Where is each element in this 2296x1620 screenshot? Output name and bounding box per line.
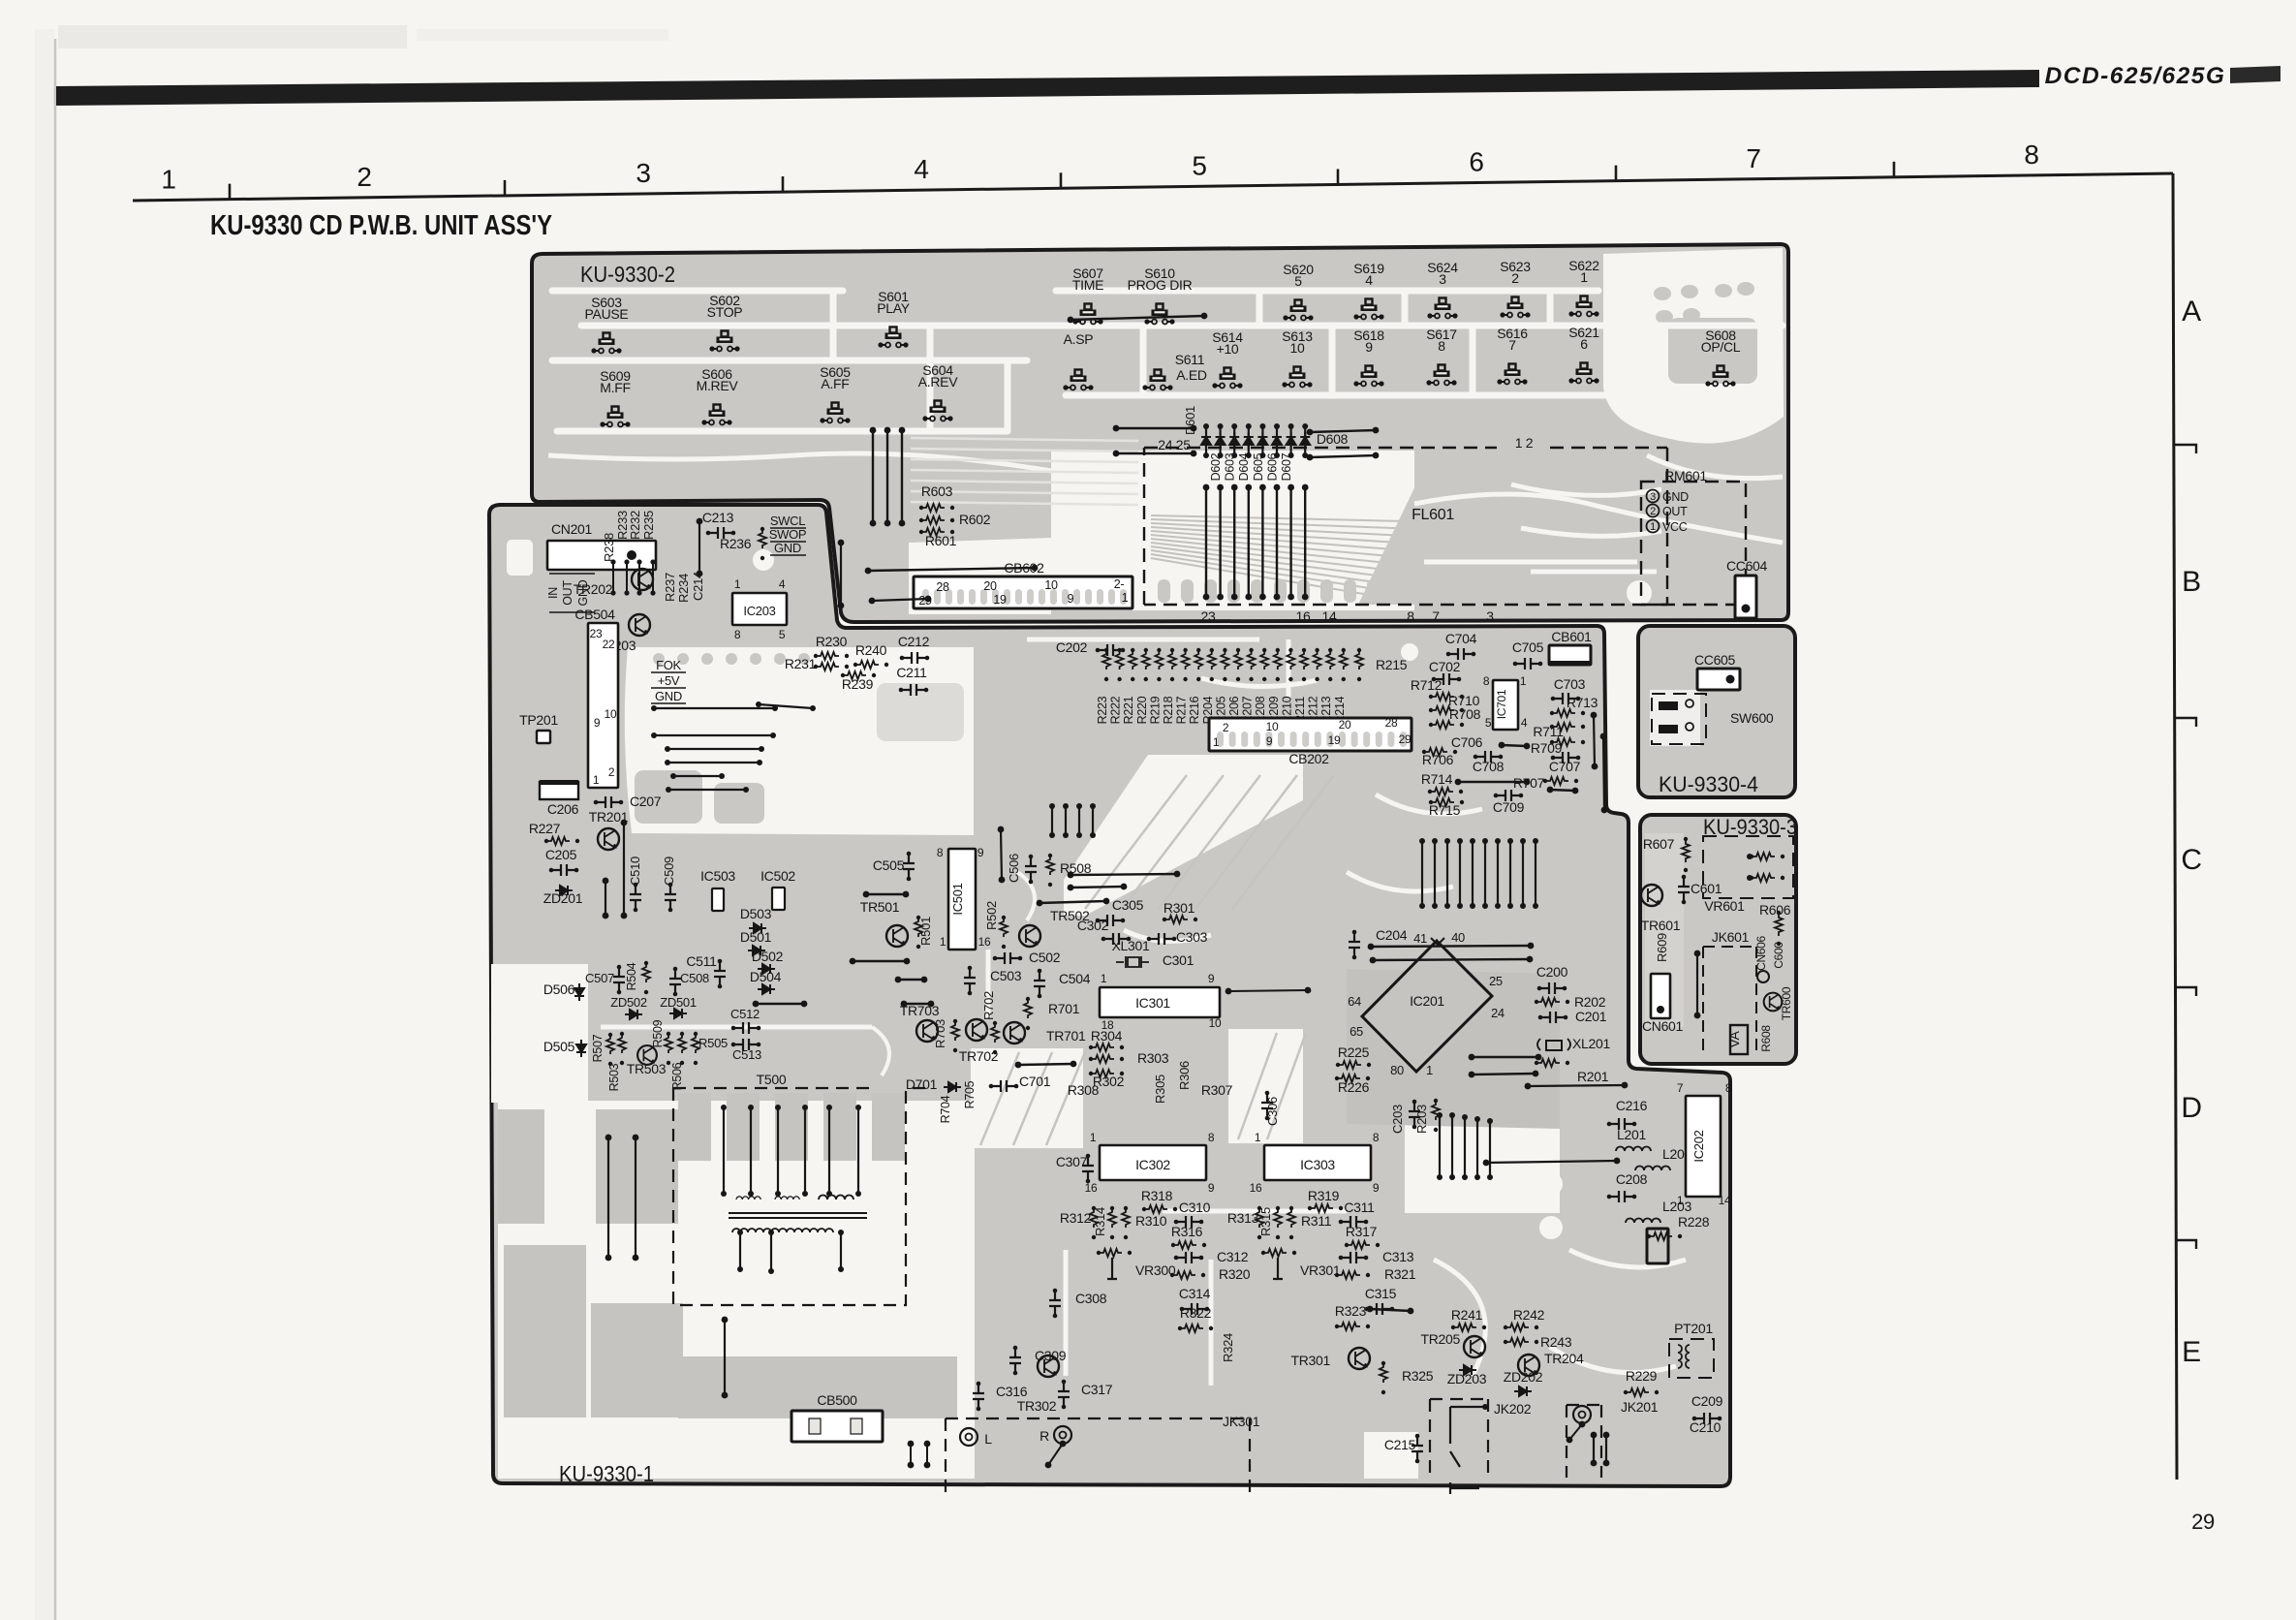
svg-text:7: 7 bbox=[1432, 608, 1440, 624]
svg-text:R310: R310 bbox=[1135, 1213, 1167, 1229]
svg-text:C507: C507 bbox=[585, 971, 614, 985]
svg-text:TIME: TIME bbox=[1072, 277, 1103, 293]
svg-text:R202: R202 bbox=[1574, 994, 1606, 1010]
svg-text:5: 5 bbox=[1485, 716, 1492, 730]
svg-text:41: 41 bbox=[1413, 931, 1427, 946]
svg-text:A.ED: A.ED bbox=[1176, 367, 1207, 383]
svg-text:R706: R706 bbox=[1422, 752, 1454, 767]
svg-text:B: B bbox=[2182, 566, 2201, 598]
svg-text:TR503: TR503 bbox=[627, 1061, 667, 1076]
svg-text:R317: R317 bbox=[1346, 1224, 1378, 1239]
svg-text:VCC: VCC bbox=[1662, 520, 1688, 534]
svg-text:JK201: JK201 bbox=[1621, 1399, 1659, 1415]
svg-text:28: 28 bbox=[1385, 716, 1398, 730]
svg-text:8: 8 bbox=[1483, 674, 1490, 688]
svg-text:10: 10 bbox=[605, 707, 617, 721]
svg-text:R307: R307 bbox=[1201, 1082, 1233, 1098]
svg-text:20: 20 bbox=[1339, 718, 1351, 732]
svg-text:R226: R226 bbox=[1338, 1079, 1370, 1095]
svg-text:C509: C509 bbox=[662, 857, 676, 886]
svg-text:R308: R308 bbox=[1068, 1082, 1100, 1098]
svg-text:65: 65 bbox=[1350, 1024, 1363, 1039]
svg-text:R703: R703 bbox=[933, 1019, 947, 1048]
svg-text:2: 2 bbox=[357, 162, 371, 192]
svg-text:C314: C314 bbox=[1179, 1286, 1211, 1301]
svg-text:PAUSE: PAUSE bbox=[585, 306, 629, 322]
svg-text:S611: S611 bbox=[1175, 352, 1205, 367]
svg-text:5: 5 bbox=[1192, 150, 1206, 180]
svg-text:10: 10 bbox=[1290, 340, 1305, 356]
svg-text:IC701: IC701 bbox=[1495, 689, 1508, 719]
svg-text:R320: R320 bbox=[1219, 1266, 1251, 1282]
svg-text:JK202: JK202 bbox=[1494, 1401, 1532, 1417]
svg-text:GND: GND bbox=[1662, 490, 1689, 504]
svg-text:28: 28 bbox=[936, 580, 949, 594]
svg-text:R713: R713 bbox=[1567, 695, 1598, 710]
svg-text:R501: R501 bbox=[918, 917, 933, 946]
svg-text:1: 1 bbox=[1677, 1194, 1684, 1207]
svg-text:8: 8 bbox=[734, 628, 741, 641]
svg-text:C709: C709 bbox=[1493, 799, 1525, 815]
svg-text:C216: C216 bbox=[1616, 1098, 1648, 1113]
svg-text:R323: R323 bbox=[1335, 1303, 1367, 1319]
svg-text:KU-9330 CD P.W.B. UNIT ASS'Y: KU-9330 CD P.W.B. UNIT ASS'Y bbox=[210, 210, 552, 241]
svg-text:R504: R504 bbox=[625, 962, 638, 990]
svg-text:6: 6 bbox=[1469, 147, 1483, 177]
svg-text:R231: R231 bbox=[785, 656, 817, 671]
svg-text:8: 8 bbox=[1725, 1081, 1732, 1095]
svg-text:R311: R311 bbox=[1301, 1213, 1332, 1229]
svg-text:2: 2 bbox=[608, 765, 615, 779]
svg-text:R221: R221 bbox=[1122, 696, 1135, 724]
svg-text:23: 23 bbox=[590, 627, 603, 640]
svg-text:C511: C511 bbox=[686, 953, 717, 969]
svg-text:GND: GND bbox=[655, 689, 682, 703]
svg-text:22: 22 bbox=[603, 638, 615, 651]
svg-text:R313: R313 bbox=[1227, 1210, 1259, 1226]
svg-text:R508: R508 bbox=[1060, 860, 1092, 876]
svg-text:1: 1 bbox=[1255, 1131, 1261, 1144]
svg-text:IC502: IC502 bbox=[760, 868, 795, 884]
svg-text:RM601: RM601 bbox=[1664, 468, 1707, 483]
svg-text:R314: R314 bbox=[1093, 1207, 1107, 1236]
svg-text:CC604: CC604 bbox=[1726, 558, 1768, 574]
svg-text:C708: C708 bbox=[1473, 759, 1505, 774]
svg-text:R603: R603 bbox=[921, 483, 953, 499]
svg-text:C504: C504 bbox=[1059, 971, 1091, 986]
svg-text:64: 64 bbox=[1348, 994, 1361, 1009]
svg-text:TR204: TR204 bbox=[1544, 1351, 1584, 1366]
svg-text:R240: R240 bbox=[855, 642, 887, 658]
svg-text:1: 1 bbox=[734, 577, 741, 591]
svg-text:R241: R241 bbox=[1451, 1307, 1483, 1323]
svg-text:R238: R238 bbox=[602, 533, 616, 562]
svg-text:R322: R322 bbox=[1180, 1305, 1212, 1321]
svg-text:KU-9330-2: KU-9330-2 bbox=[580, 262, 675, 287]
svg-text:R705: R705 bbox=[963, 1080, 977, 1108]
svg-text:R232: R232 bbox=[628, 511, 642, 540]
svg-text:R304: R304 bbox=[1091, 1028, 1123, 1044]
svg-text:1: 1 bbox=[940, 935, 946, 949]
svg-text:D608: D608 bbox=[1317, 431, 1349, 447]
svg-text:24: 24 bbox=[1491, 1006, 1505, 1020]
svg-text:R601: R601 bbox=[925, 533, 957, 548]
svg-text:14: 14 bbox=[1719, 1194, 1731, 1207]
svg-text:R229: R229 bbox=[1626, 1368, 1658, 1384]
svg-text:+10: +10 bbox=[1217, 341, 1239, 357]
svg-text:R715: R715 bbox=[1429, 802, 1461, 818]
svg-text:TR701: TR701 bbox=[1046, 1028, 1086, 1044]
svg-text:R301: R301 bbox=[1164, 900, 1195, 916]
svg-text:3: 3 bbox=[1439, 271, 1446, 287]
svg-text:1: 1 bbox=[1580, 269, 1588, 285]
svg-text:A: A bbox=[2182, 296, 2201, 327]
svg-text:80: 80 bbox=[1390, 1063, 1404, 1077]
svg-text:10: 10 bbox=[1209, 1016, 1222, 1030]
svg-text:L201: L201 bbox=[1617, 1127, 1646, 1142]
svg-text:R702: R702 bbox=[981, 991, 996, 1020]
svg-text:R243: R243 bbox=[1540, 1334, 1572, 1350]
svg-text:C213: C213 bbox=[702, 510, 734, 525]
svg-text:9: 9 bbox=[1208, 972, 1215, 985]
svg-text:JK301: JK301 bbox=[1223, 1414, 1260, 1429]
svg-text:R203: R203 bbox=[1414, 1105, 1429, 1134]
svg-text:19: 19 bbox=[993, 593, 1007, 607]
svg-text:R218: R218 bbox=[1162, 696, 1175, 724]
svg-text:R325: R325 bbox=[1402, 1368, 1434, 1384]
svg-text:R701: R701 bbox=[1048, 1001, 1080, 1016]
svg-text:PT201: PT201 bbox=[1674, 1321, 1713, 1336]
svg-text:DCD-625/625G: DCD-625/625G bbox=[2045, 63, 2226, 89]
svg-text:C303: C303 bbox=[1176, 929, 1208, 945]
svg-text:R316: R316 bbox=[1171, 1224, 1203, 1239]
svg-text:CN201: CN201 bbox=[551, 521, 593, 537]
svg-text:9: 9 bbox=[1068, 592, 1074, 606]
svg-text:SWOP: SWOP bbox=[769, 527, 807, 542]
svg-text:R201: R201 bbox=[1577, 1069, 1609, 1084]
svg-text:VA: VA bbox=[1726, 1031, 1742, 1048]
svg-text:CB202: CB202 bbox=[1288, 751, 1329, 766]
svg-text:R607: R607 bbox=[1643, 836, 1675, 852]
svg-text:C200: C200 bbox=[1536, 964, 1568, 980]
svg-text:+5V: +5V bbox=[658, 673, 680, 688]
svg-text:C210: C210 bbox=[1690, 1419, 1722, 1435]
svg-text:8: 8 bbox=[937, 846, 944, 859]
svg-text:D701: D701 bbox=[906, 1076, 938, 1092]
svg-text:TR600: TR600 bbox=[1780, 986, 1793, 1020]
svg-text:D505: D505 bbox=[543, 1039, 575, 1054]
svg-text:SW600: SW600 bbox=[1730, 710, 1774, 726]
svg-text:1: 1 bbox=[1520, 674, 1527, 688]
svg-text:R324: R324 bbox=[1221, 1333, 1235, 1362]
svg-text:R315: R315 bbox=[1258, 1207, 1273, 1236]
svg-text:R609: R609 bbox=[1655, 933, 1669, 962]
svg-text:R602: R602 bbox=[959, 512, 991, 527]
svg-text:R235: R235 bbox=[641, 511, 656, 540]
svg-text:1: 1 bbox=[1426, 1063, 1433, 1077]
svg-text:3: 3 bbox=[1650, 491, 1656, 503]
svg-text:2: 2 bbox=[1650, 506, 1656, 517]
svg-text:C315: C315 bbox=[1365, 1286, 1397, 1301]
svg-text:VR601: VR601 bbox=[1704, 898, 1745, 914]
svg-text:PROG DIR: PROG DIR bbox=[1128, 277, 1193, 293]
svg-text:CB500: CB500 bbox=[817, 1392, 857, 1408]
svg-text:R319: R319 bbox=[1308, 1188, 1340, 1203]
svg-text:R222: R222 bbox=[1109, 696, 1123, 724]
svg-text:IC503: IC503 bbox=[700, 868, 735, 884]
svg-text:C316: C316 bbox=[996, 1384, 1028, 1399]
svg-text:R: R bbox=[1039, 1428, 1049, 1444]
svg-text:E: E bbox=[2182, 1336, 2201, 1368]
svg-text:16: 16 bbox=[1085, 1181, 1098, 1195]
svg-text:C312: C312 bbox=[1217, 1249, 1249, 1264]
svg-text:ZD502: ZD502 bbox=[610, 995, 647, 1010]
svg-text:R712: R712 bbox=[1411, 677, 1443, 693]
svg-text:C202: C202 bbox=[1056, 639, 1088, 655]
svg-text:4: 4 bbox=[914, 154, 928, 184]
svg-text:D506: D506 bbox=[543, 981, 575, 997]
svg-text:XL201: XL201 bbox=[1572, 1036, 1610, 1051]
svg-text:TR702: TR702 bbox=[959, 1048, 999, 1064]
svg-text:C707: C707 bbox=[1549, 759, 1581, 774]
svg-text:R312: R312 bbox=[1060, 1210, 1092, 1226]
svg-text:C307: C307 bbox=[1056, 1154, 1088, 1169]
svg-text:10: 10 bbox=[1044, 578, 1058, 592]
svg-text:R239: R239 bbox=[842, 676, 874, 692]
svg-text:L: L bbox=[984, 1431, 992, 1447]
svg-text:R707: R707 bbox=[1513, 775, 1545, 791]
svg-text:XL301: XL301 bbox=[1112, 938, 1150, 953]
svg-text:40: 40 bbox=[1451, 930, 1465, 945]
svg-text:29: 29 bbox=[1399, 732, 1412, 746]
svg-text:1: 1 bbox=[1650, 521, 1656, 533]
svg-text:D607: D607 bbox=[1280, 452, 1293, 481]
svg-text:TR301: TR301 bbox=[1290, 1353, 1330, 1368]
svg-text:R216: R216 bbox=[1188, 696, 1201, 724]
svg-text:CN601: CN601 bbox=[1642, 1018, 1684, 1034]
svg-text:R303: R303 bbox=[1137, 1050, 1169, 1066]
svg-text:R227: R227 bbox=[529, 821, 561, 836]
svg-text:TR501: TR501 bbox=[860, 899, 900, 915]
svg-text:25: 25 bbox=[1489, 974, 1503, 988]
svg-text:5: 5 bbox=[779, 628, 786, 641]
svg-text:R220: R220 bbox=[1135, 696, 1149, 724]
svg-text:10: 10 bbox=[1266, 720, 1279, 733]
svg-text:CB602: CB602 bbox=[1004, 560, 1044, 576]
svg-text:R505: R505 bbox=[698, 1036, 728, 1050]
svg-text:FL601: FL601 bbox=[1412, 507, 1454, 523]
svg-text:R237: R237 bbox=[663, 573, 677, 602]
svg-text:CC605: CC605 bbox=[1694, 652, 1736, 668]
svg-text:CB504: CB504 bbox=[574, 607, 615, 622]
svg-text:C207: C207 bbox=[630, 794, 662, 809]
svg-text:R225: R225 bbox=[1338, 1044, 1370, 1060]
svg-text:D: D bbox=[2181, 1092, 2201, 1124]
svg-text:C305: C305 bbox=[1112, 897, 1144, 913]
svg-text:R608: R608 bbox=[1759, 1025, 1773, 1052]
svg-text:KU-9330-4: KU-9330-4 bbox=[1659, 772, 1758, 796]
svg-text:D604: D604 bbox=[1237, 452, 1251, 481]
svg-text:T500: T500 bbox=[757, 1072, 787, 1087]
svg-text:9: 9 bbox=[1208, 1181, 1215, 1195]
svg-text:C203: C203 bbox=[1390, 1105, 1405, 1134]
svg-text:R228: R228 bbox=[1678, 1214, 1710, 1230]
svg-text:C510: C510 bbox=[628, 857, 642, 886]
svg-text:6: 6 bbox=[1580, 336, 1588, 352]
svg-text:KU-9330-1: KU-9330-1 bbox=[559, 1461, 654, 1486]
svg-text:OUT: OUT bbox=[1662, 505, 1688, 518]
svg-text:C205: C205 bbox=[545, 847, 577, 862]
svg-text:3: 3 bbox=[1486, 608, 1494, 624]
svg-text:1: 1 bbox=[593, 773, 600, 787]
svg-text:C208: C208 bbox=[1616, 1171, 1648, 1187]
svg-text:C201: C201 bbox=[1575, 1009, 1607, 1024]
svg-text:GND: GND bbox=[774, 541, 801, 555]
svg-text:23: 23 bbox=[1201, 608, 1216, 624]
svg-text:1: 1 bbox=[1213, 735, 1220, 749]
svg-text:D605: D605 bbox=[1252, 452, 1265, 481]
svg-text:D603: D603 bbox=[1224, 452, 1237, 481]
svg-text:C513: C513 bbox=[732, 1047, 761, 1062]
svg-text:9: 9 bbox=[1266, 734, 1273, 748]
svg-text:8: 8 bbox=[2024, 140, 2038, 170]
svg-text:C317: C317 bbox=[1081, 1382, 1113, 1397]
svg-text:8: 8 bbox=[1407, 608, 1414, 624]
svg-text:16: 16 bbox=[978, 935, 991, 949]
svg-text:PLAY: PLAY bbox=[877, 300, 911, 316]
svg-text:C204: C204 bbox=[1376, 927, 1408, 943]
svg-text:M.FF: M.FF bbox=[600, 380, 630, 395]
svg-text:C209: C209 bbox=[1691, 1393, 1723, 1409]
svg-text:1 2: 1 2 bbox=[1515, 435, 1534, 451]
svg-text:CN606: CN606 bbox=[1754, 935, 1768, 970]
svg-text:R305: R305 bbox=[1153, 1075, 1167, 1104]
svg-text:1: 1 bbox=[1090, 1131, 1097, 1144]
svg-text:D503: D503 bbox=[740, 906, 772, 921]
svg-text:2: 2 bbox=[1223, 721, 1229, 734]
svg-text:C212: C212 bbox=[898, 634, 930, 649]
svg-text:C: C bbox=[2181, 844, 2201, 876]
svg-text:OP/CL: OP/CL bbox=[1701, 339, 1741, 355]
svg-text:R708: R708 bbox=[1449, 706, 1481, 722]
svg-text:R502: R502 bbox=[984, 901, 999, 930]
svg-text:TR205: TR205 bbox=[1420, 1331, 1460, 1347]
svg-text:24 25: 24 25 bbox=[1158, 437, 1191, 452]
svg-text:C311: C311 bbox=[1344, 1199, 1375, 1215]
svg-text:R234: R234 bbox=[676, 574, 691, 603]
svg-text:C302: C302 bbox=[1077, 918, 1109, 933]
svg-text:1: 1 bbox=[1122, 591, 1129, 605]
svg-text:ZD202: ZD202 bbox=[1504, 1369, 1543, 1385]
svg-text:8: 8 bbox=[1208, 1131, 1215, 1144]
svg-text:IN: IN bbox=[546, 587, 560, 599]
svg-text:R704: R704 bbox=[939, 1095, 952, 1123]
svg-text:9: 9 bbox=[1373, 1181, 1380, 1195]
svg-text:C704: C704 bbox=[1445, 631, 1477, 646]
svg-text:CB601: CB601 bbox=[1551, 629, 1592, 644]
svg-text:R242: R242 bbox=[1513, 1307, 1545, 1323]
svg-text:C703: C703 bbox=[1554, 676, 1586, 692]
svg-text:3: 3 bbox=[636, 158, 650, 188]
svg-text:C701: C701 bbox=[1019, 1074, 1051, 1089]
svg-text:C702: C702 bbox=[1429, 659, 1461, 674]
svg-text:2: 2 bbox=[1511, 270, 1519, 286]
svg-text:19: 19 bbox=[1328, 733, 1341, 747]
svg-text:D502: D502 bbox=[752, 949, 784, 964]
svg-text:R507: R507 bbox=[591, 1034, 605, 1062]
svg-text:C508: C508 bbox=[680, 971, 709, 985]
svg-text:D504: D504 bbox=[750, 969, 782, 984]
svg-text:9: 9 bbox=[594, 716, 601, 730]
svg-text:R714: R714 bbox=[1421, 771, 1453, 787]
svg-text:R709: R709 bbox=[1531, 740, 1563, 756]
svg-text:IC201: IC201 bbox=[1410, 993, 1444, 1009]
svg-text:IC303: IC303 bbox=[1300, 1157, 1335, 1172]
svg-text:8: 8 bbox=[1438, 338, 1445, 354]
svg-text:R223: R223 bbox=[1096, 696, 1109, 724]
svg-text:R318: R318 bbox=[1141, 1188, 1173, 1203]
svg-text:R219: R219 bbox=[1148, 696, 1162, 724]
svg-text:R230: R230 bbox=[816, 634, 848, 649]
svg-text:TP201: TP201 bbox=[519, 712, 558, 728]
svg-text:R306: R306 bbox=[1177, 1061, 1192, 1090]
svg-text:4: 4 bbox=[1365, 272, 1373, 288]
svg-text:VR301: VR301 bbox=[1300, 1262, 1341, 1278]
svg-text:R217: R217 bbox=[1175, 696, 1189, 724]
svg-text:C206: C206 bbox=[547, 801, 579, 817]
svg-text:IC202: IC202 bbox=[1691, 1130, 1706, 1162]
svg-text:A.FF: A.FF bbox=[821, 376, 849, 391]
svg-text:1: 1 bbox=[161, 165, 175, 195]
svg-text:D606: D606 bbox=[1265, 452, 1279, 481]
svg-text:C706: C706 bbox=[1451, 734, 1483, 750]
svg-text:4: 4 bbox=[779, 577, 786, 591]
svg-text:A.REV: A.REV bbox=[918, 374, 958, 389]
svg-text:C512: C512 bbox=[730, 1007, 760, 1021]
svg-text:C705: C705 bbox=[1512, 639, 1544, 655]
svg-text:R236: R236 bbox=[720, 536, 752, 551]
svg-text:C308: C308 bbox=[1075, 1291, 1107, 1306]
svg-text:R506: R506 bbox=[670, 1062, 684, 1090]
svg-text:STOP: STOP bbox=[707, 304, 743, 320]
svg-text:9: 9 bbox=[977, 846, 984, 859]
svg-text:M.REV: M.REV bbox=[697, 378, 739, 393]
svg-text:C600: C600 bbox=[1772, 942, 1785, 969]
svg-text:R503: R503 bbox=[607, 1063, 621, 1091]
svg-text:R606: R606 bbox=[1759, 902, 1791, 918]
svg-text:C310: C310 bbox=[1179, 1199, 1211, 1215]
svg-text:2-: 2- bbox=[1114, 577, 1125, 591]
svg-text:7: 7 bbox=[1677, 1081, 1684, 1095]
svg-text:D501: D501 bbox=[740, 929, 772, 945]
svg-text:C313: C313 bbox=[1382, 1249, 1414, 1264]
svg-text:14: 14 bbox=[1322, 608, 1337, 624]
svg-text:5: 5 bbox=[1294, 273, 1302, 289]
svg-text:ZD501: ZD501 bbox=[660, 995, 697, 1010]
svg-text:16: 16 bbox=[1296, 608, 1311, 624]
svg-text:9: 9 bbox=[1365, 339, 1373, 355]
svg-text:C301: C301 bbox=[1163, 952, 1195, 968]
svg-text:8: 8 bbox=[1373, 1131, 1380, 1144]
svg-text:20: 20 bbox=[983, 579, 997, 593]
svg-text:C211: C211 bbox=[896, 665, 927, 680]
svg-text:IC203: IC203 bbox=[743, 604, 775, 618]
svg-text:C215: C215 bbox=[1384, 1437, 1416, 1452]
svg-text:7: 7 bbox=[1508, 337, 1516, 353]
svg-text:FOK: FOK bbox=[656, 658, 681, 672]
svg-text:A.SP: A.SP bbox=[1064, 331, 1094, 347]
svg-text:R215: R215 bbox=[1376, 657, 1408, 672]
